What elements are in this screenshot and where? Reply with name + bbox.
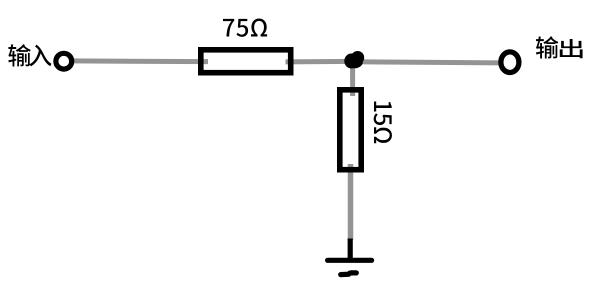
input terminal (open circle) [56,53,72,69]
value label: 75Ω for R1 [223,19,267,37]
wire: R1 right lead to junction node A [286,59,354,65]
resistor R2 15 ohm (vertical rectangle body) [340,90,361,170]
wire: R2 bottom lead to ground [348,164,354,240]
wire: junction node A down to R2 top lead [350,62,355,96]
ground symbol [328,239,372,275]
value label: 15Ω for R2 (rotated 90°) [374,101,392,143]
label: 输入 (input) [8,44,51,66]
wire: junction node A to output terminal [353,62,501,63]
node A: junction dot at R1/R2/output [344,51,364,69]
wire: input terminal to R1 left lead [70,58,208,64]
label: 输出 (output) [536,36,583,58]
output terminal (open circle) [501,52,519,73]
resistor R1 75 ohm (horizontal rectangle body) [201,50,291,73]
